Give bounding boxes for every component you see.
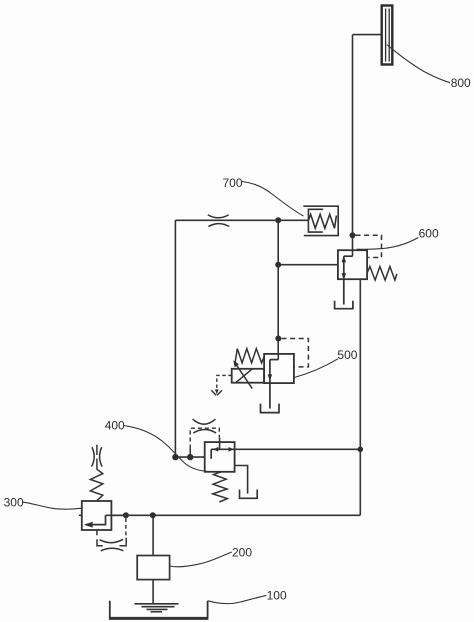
svg-text:800: 800: [451, 76, 471, 90]
svg-text:300: 300: [4, 496, 24, 510]
svg-text:600: 600: [419, 227, 439, 241]
svg-text:100: 100: [267, 589, 287, 603]
svg-text:500: 500: [337, 348, 357, 362]
svg-text:700: 700: [223, 176, 243, 190]
svg-text:200: 200: [232, 545, 252, 559]
svg-text:400: 400: [105, 419, 125, 433]
